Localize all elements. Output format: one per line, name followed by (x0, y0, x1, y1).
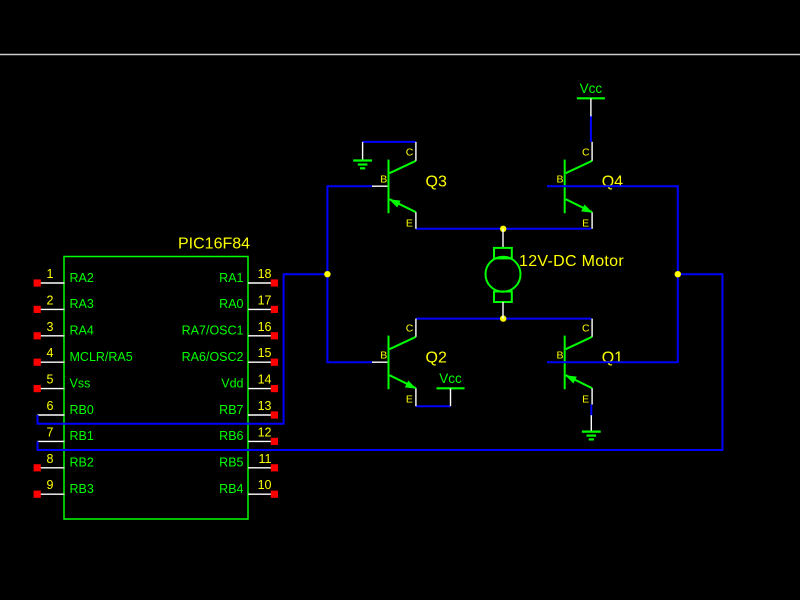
IC U1 pin 5 Vss (34, 373, 91, 393)
svg-text:C: C (406, 147, 414, 159)
svg-text:RB1: RB1 (70, 429, 94, 443)
svg-text:10: 10 (258, 478, 272, 492)
svg-text:9: 9 (47, 478, 54, 492)
svg-text:RB0: RB0 (70, 403, 94, 417)
svg-text:16: 16 (258, 320, 272, 334)
svg-text:13: 13 (258, 399, 272, 413)
svg-text:RB7: RB7 (219, 403, 243, 417)
svg-text:17: 17 (258, 293, 272, 307)
svg-text:Vcc: Vcc (439, 371, 462, 386)
svg-text:E: E (582, 394, 589, 406)
svg-text:RA1: RA1 (219, 271, 243, 285)
junction motor bottom / bottom rail (500, 315, 506, 321)
power Vcc symbol (Q2 emitter) (437, 371, 465, 406)
svg-text:7: 7 (47, 425, 54, 439)
wire Q4 base (547, 185, 679, 187)
wire Q2 emitter to Vcc (416, 405, 451, 407)
svg-text:RB5: RB5 (219, 456, 243, 470)
IC U1 pin 12 RB6 (219, 425, 278, 445)
wire Q1 base (547, 361, 679, 363)
wire left rail Q3.B-Q2.B (326, 186, 328, 362)
IC U1 pin 1 RA2 (34, 267, 94, 287)
svg-text:6: 6 (47, 399, 54, 413)
svg-text:RA7/OSC1: RA7/OSC1 (182, 324, 244, 338)
svg-text:RA0: RA0 (219, 297, 243, 311)
IC U1 pin 9 RB3 (34, 478, 94, 498)
svg-text:2: 2 (47, 293, 54, 307)
IC U1 pin 10 RB4 (219, 478, 278, 498)
svg-text:14: 14 (258, 373, 272, 387)
svg-text:12: 12 (258, 425, 272, 439)
svg-text:1: 1 (47, 267, 54, 281)
junction node A left rail / RB0 net (324, 271, 330, 277)
IC U1 pin 18 RA1 (219, 267, 278, 287)
transistor Q4 (NPN) (548, 142, 623, 230)
svg-text:E: E (582, 218, 589, 230)
IC U1 pin 7 RB1 (38, 425, 94, 443)
wire Q3 collector to ground (363, 141, 416, 143)
svg-text:Q3: Q3 (426, 174, 447, 191)
svg-text:11: 11 (259, 452, 272, 466)
wire top border line (0, 54, 800, 56)
junction motor top / top rail (500, 226, 506, 232)
svg-text:RB2: RB2 (70, 456, 94, 470)
IC U1 pin 15 RA6/OSC2 (182, 346, 278, 366)
IC U1 pin 2 RA3 (34, 293, 94, 313)
svg-text:C: C (406, 323, 414, 335)
wire net RB1 to Q4/Q1 bases (38, 274, 723, 450)
svg-text:Vss: Vss (70, 376, 91, 390)
IC U1 pin 8 RB2 (34, 452, 94, 472)
IC U1 pin 6 RB0 (38, 399, 94, 417)
svg-text:5: 5 (47, 373, 54, 387)
svg-text:RA2: RA2 (70, 271, 94, 285)
IC U1 pin 3 RA4 (34, 320, 94, 340)
svg-text:RA6/OSC2: RA6/OSC2 (182, 350, 244, 364)
motor M1 12V-DC (486, 229, 521, 319)
IC U1 pin 4 MCLR/RA5 (34, 346, 133, 366)
svg-text:Q4: Q4 (602, 174, 623, 191)
svg-text:C: C (582, 323, 590, 335)
svg-text:4: 4 (47, 346, 54, 360)
svg-text:RB4: RB4 (219, 482, 243, 496)
svg-text:B: B (556, 173, 563, 185)
wire Q1 emitter to ground (590, 405, 592, 416)
ground symbol at Q1 emitter (582, 415, 601, 439)
svg-text:Vdd: Vdd (221, 376, 243, 390)
svg-text:RA3: RA3 (70, 297, 94, 311)
wire right rail Q4.B-Q1.B (677, 186, 679, 362)
svg-text:E: E (406, 218, 413, 230)
transistor Q2 (NPN) (372, 319, 447, 407)
svg-text:3: 3 (47, 320, 54, 334)
ground symbol at Q3 collector (353, 142, 372, 168)
junction node B right rail / RB1 net (675, 271, 681, 277)
wire Q3 base (326, 185, 372, 187)
svg-text:18: 18 (258, 267, 272, 281)
IC U1 pin 14 Vdd (221, 373, 278, 393)
svg-text:E: E (406, 394, 413, 406)
svg-text:15: 15 (258, 346, 272, 360)
transistor Q1 (PNP) (548, 319, 623, 406)
svg-text:8: 8 (47, 452, 54, 466)
svg-text:Vcc: Vcc (580, 81, 603, 96)
transistor Q3 (PNP) (372, 142, 447, 230)
IC U1 pin 16 RA7/OSC1 (182, 320, 278, 340)
wire Vcc to Q4 collector (590, 115, 592, 142)
power Vcc symbol (top, Q4 collector) (577, 81, 605, 117)
wire top rail Q3.E-motor-Q4.E (416, 228, 592, 230)
svg-text:PIC16F84: PIC16F84 (178, 235, 250, 252)
svg-text:RB6: RB6 (219, 429, 243, 443)
svg-text:B: B (556, 349, 563, 361)
IC U1 pin 17 RA0 (219, 293, 278, 313)
wire Q2 base (326, 361, 372, 363)
svg-text:12V-DC Motor: 12V-DC Motor (519, 253, 624, 270)
wire bottom rail Q2.C-motor-Q1.C (416, 318, 592, 320)
svg-text:RB3: RB3 (70, 482, 94, 496)
wire net RB0 to Q3/Q2 bases (38, 274, 328, 424)
svg-text:Q2: Q2 (426, 350, 447, 367)
svg-text:Q1: Q1 (602, 350, 623, 367)
IC U1 PIC16F84 body (64, 257, 248, 520)
svg-text:B: B (380, 173, 387, 185)
IC U1 pin 11 RB5 (219, 452, 278, 472)
svg-text:RA4: RA4 (70, 324, 94, 338)
svg-text:MCLR/RA5: MCLR/RA5 (70, 350, 133, 364)
IC U1 pin 13 RB7 (219, 399, 278, 419)
svg-text:B: B (380, 349, 387, 361)
svg-text:C: C (582, 147, 590, 159)
